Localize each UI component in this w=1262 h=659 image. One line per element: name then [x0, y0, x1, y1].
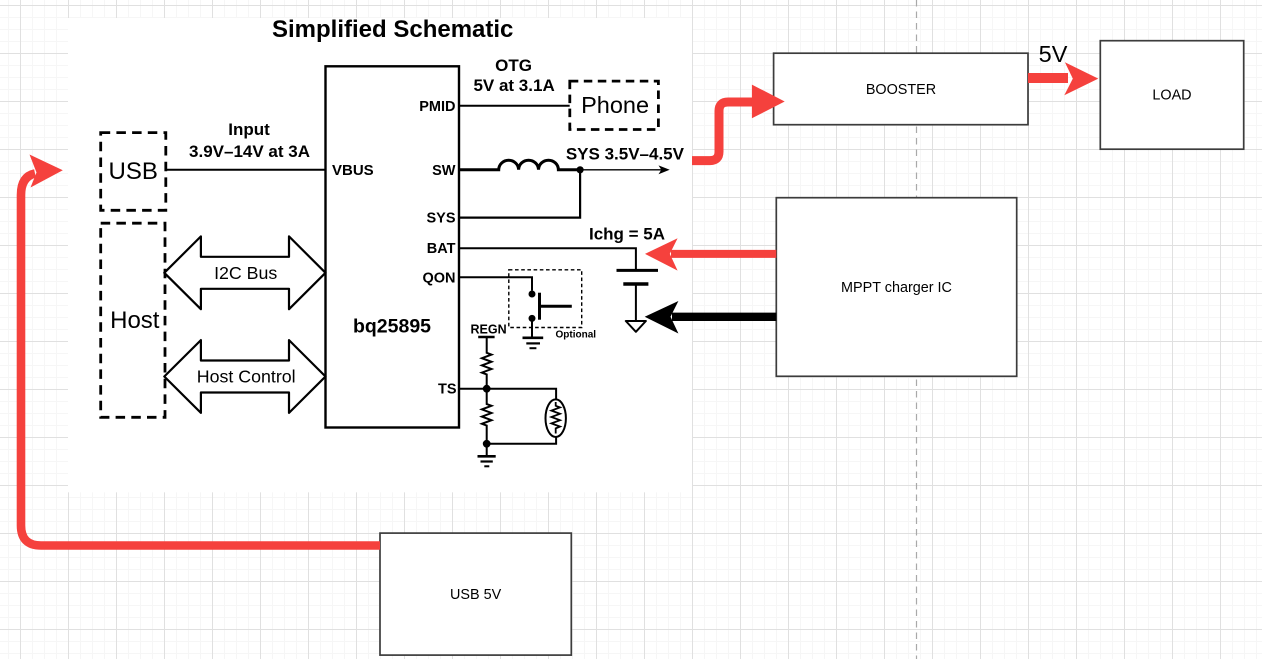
push-button S1 (optional): [529, 291, 572, 322]
svg-text:Phone: Phone: [581, 92, 649, 118]
svg-text:OTG: OTG: [495, 56, 532, 75]
resistor R2 (TS to ground): [482, 389, 492, 444]
battery BT1: [617, 270, 659, 321]
node bottom junction: [483, 440, 491, 448]
svg-text:PMID: PMID: [419, 99, 455, 115]
thermistor RT1: [546, 399, 566, 437]
svg-text:REGN: REGN: [471, 322, 507, 336]
svg-text:SYS 3.5V–4.5V: SYS 3.5V–4.5V: [566, 145, 685, 164]
svg-text:MPPT charger IC: MPPT charger IC: [841, 280, 952, 296]
node TS junction: [483, 385, 491, 393]
black arrow MPPT to ground: [645, 301, 777, 334]
Host Control double arrow: [164, 340, 325, 413]
red arrow MPPT to battery (Ichg): [645, 238, 776, 270]
svg-text:BOOSTER: BOOSTER: [866, 82, 936, 98]
MPPT charger IC block: [776, 198, 1016, 377]
ground below TS divider: [478, 456, 496, 466]
inductor L1 on SW: [459, 160, 580, 170]
svg-text:Ichg = 5A: Ichg = 5A: [589, 225, 665, 244]
svg-text:Optional: Optional: [556, 330, 597, 341]
svg-text:3.9V–14V at 3A: 3.9V–14V at 3A: [189, 142, 310, 161]
svg-text:bq25895: bq25895: [353, 316, 431, 338]
node SYS output junction: [577, 166, 584, 173]
red arrow BOOSTER to LOAD: [1028, 62, 1098, 95]
wire to ground: [486, 444, 488, 457]
svg-text:Host: Host: [110, 307, 160, 334]
svg-text:SW: SW: [432, 163, 456, 179]
page separator dashed line: [916, 0, 918, 659]
svg-text:LOAD: LOAD: [1152, 88, 1191, 104]
red arrow USB 5V to USB input: [21, 155, 380, 546]
svg-text:I2C Bus: I2C Bus: [214, 263, 277, 283]
wire PMID to Phone: [459, 105, 570, 107]
svg-text:5V: 5V: [1039, 41, 1068, 67]
wire thermistor bottom: [487, 437, 556, 444]
svg-text:5V at 3.1A: 5V at 3.1A: [473, 76, 554, 95]
svg-text:QON: QON: [422, 270, 455, 286]
ground under push-button: [523, 338, 544, 348]
svg-text:SYS: SYS: [426, 211, 455, 227]
svg-text:USB 5V: USB 5V: [450, 587, 502, 603]
wire button to ground: [531, 318, 533, 337]
wire BAT to battery: [459, 248, 636, 270]
svg-text:Input: Input: [228, 120, 270, 139]
wire SYS output arrow: [580, 165, 670, 174]
wire USB to VBUS: [166, 169, 326, 171]
red elbow arrow SYS to BOOSTER: [692, 85, 785, 161]
I2C Bus double arrow: [164, 236, 325, 309]
op-amp U1 bq25895 IC body: [326, 66, 460, 427]
resistor R1 (REGN to TS): [482, 337, 492, 389]
USB dashed box: [101, 133, 166, 211]
wire junction down to SYS pin: [459, 170, 580, 218]
svg-text:VBUS: VBUS: [332, 162, 374, 179]
pin lead REGN: [478, 336, 494, 338]
BOOSTER block: [774, 53, 1028, 125]
svg-text:USB: USB: [109, 158, 158, 185]
Host dashed box: [101, 223, 165, 417]
svg-text:Simplified Schematic: Simplified Schematic: [272, 16, 513, 43]
schematic white background panel: [68, 18, 692, 492]
svg-text:TS: TS: [438, 382, 457, 398]
svg-text:Host Control: Host Control: [197, 367, 296, 387]
ground open triangle below battery: [626, 321, 646, 332]
Optional dashed box: [509, 270, 582, 328]
wire QON to push-button: [459, 277, 532, 290]
USB 5V block: [380, 533, 571, 655]
LOAD block: [1100, 41, 1243, 150]
Phone dashed box: [570, 81, 659, 129]
wire TS junction to thermistor: [487, 389, 556, 400]
wire TS pin: [459, 388, 487, 390]
svg-text:BAT: BAT: [427, 241, 456, 257]
